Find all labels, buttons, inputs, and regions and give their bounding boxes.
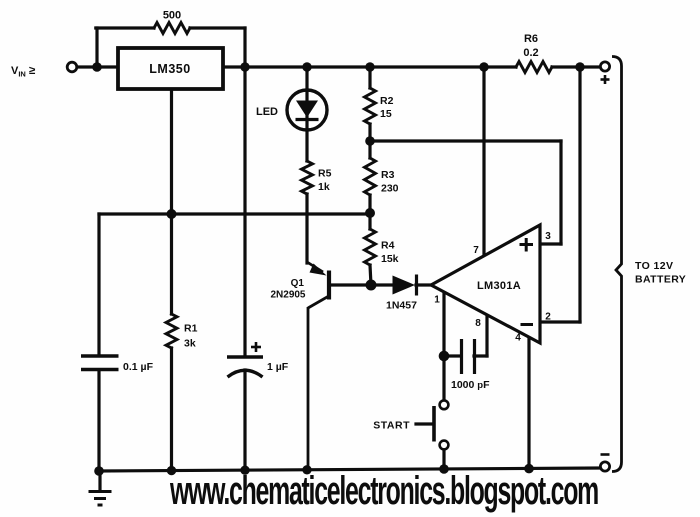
svg-text:1k: 1k bbox=[318, 181, 330, 193]
svg-text:Q1: Q1 bbox=[291, 278, 305, 289]
svg-text:15: 15 bbox=[380, 108, 392, 120]
svg-text:LED: LED bbox=[256, 106, 278, 118]
wire R3 to ADJ rail node bbox=[368, 195, 371, 213]
svg-text:2N2905: 2N2905 bbox=[270, 290, 305, 301]
wire LED cathode to R5 bbox=[305, 130, 308, 161]
node ground switch bbox=[439, 464, 449, 474]
wire R2 to node bbox=[368, 124, 371, 141]
transistor Q1 2N2905 bbox=[307, 262, 329, 470]
wire ground rail bbox=[99, 468, 600, 471]
wire start label stub bbox=[416, 422, 432, 425]
wire through LED circle bbox=[305, 90, 308, 130]
svg-text:0.2: 0.2 bbox=[523, 47, 538, 59]
svg-text:1: 1 bbox=[434, 295, 440, 306]
node pin7 supply tap bbox=[479, 62, 488, 71]
node Q1 base-diode bbox=[366, 280, 377, 291]
svg-text:1000 pF: 1000 pF bbox=[451, 379, 490, 391]
svg-text:TO 12V: TO 12V bbox=[635, 260, 673, 272]
node LED tap bbox=[302, 62, 311, 71]
wire feedback from battery plus to pin 2 bbox=[578, 67, 581, 322]
node ground pin4 bbox=[524, 464, 534, 474]
wire Vin terminal to LM350 input bbox=[77, 65, 119, 68]
svg-text:7: 7 bbox=[473, 245, 479, 256]
node ground C1 bbox=[94, 466, 104, 476]
wire LM350 ADJ pin down bbox=[170, 89, 173, 214]
ground bbox=[89, 492, 112, 506]
resistor 500 bbox=[154, 23, 190, 34]
wire Q1 base to diode anode bbox=[331, 283, 393, 286]
wire Vin node up to 500-ohm bypass bbox=[95, 28, 98, 65]
wire pin3 vertical link bbox=[559, 141, 562, 244]
node R3-R4 ADJ rail bbox=[365, 208, 375, 218]
wire node to R4 bbox=[368, 213, 371, 229]
node ADJ-R1 bbox=[167, 209, 177, 219]
node R2-R3 pin3 bbox=[365, 136, 375, 146]
label plus terminal bbox=[601, 75, 610, 84]
svg-text:1N457: 1N457 bbox=[386, 300, 417, 312]
wire node to R3 bbox=[368, 141, 371, 158]
wire op-amp pin 2 stub bbox=[540, 320, 580, 323]
svg-text:R1: R1 bbox=[184, 323, 198, 335]
terminal Vin bbox=[67, 62, 77, 72]
wire op-amp pin 1 down to start switch bbox=[442, 292, 445, 401]
resistor R6 bbox=[516, 62, 552, 73]
resistor R4 bbox=[365, 229, 376, 265]
wire C2 minus plate to ground rail bbox=[243, 370, 246, 471]
wire start switch to ground rail bbox=[442, 449, 445, 470]
regulator U1 LM350 bbox=[118, 48, 223, 89]
svg-text:15k: 15k bbox=[381, 253, 399, 265]
svg-text:BATTERY: BATTERY bbox=[635, 274, 686, 286]
svg-text:1 µF: 1 µF bbox=[267, 361, 289, 373]
brace to battery bbox=[612, 57, 622, 472]
wire LM350 output rail bbox=[223, 65, 516, 68]
svg-text:R2: R2 bbox=[380, 95, 394, 107]
terminal battery plus bbox=[600, 62, 609, 71]
wire pin 8 to compensation cap bbox=[474, 354, 487, 357]
svg-text:2: 2 bbox=[545, 312, 551, 323]
op-amp minus input symbol bbox=[521, 323, 534, 326]
capacitor C3 1000 pF bbox=[462, 339, 475, 374]
wire ground stub bbox=[98, 471, 101, 489]
svg-text:www.chematicelectronics.blogsp: www.chematicelectronics.blogspot.com bbox=[169, 469, 598, 513]
wire comp cap to pin 1 line bbox=[444, 354, 461, 357]
wire R2-R3 node to pin3 link bbox=[370, 139, 561, 142]
resistor R5 bbox=[302, 161, 313, 194]
node comp cap - pin1 bbox=[439, 351, 450, 362]
node Vin input bbox=[92, 62, 102, 72]
label minus terminal bbox=[601, 453, 610, 456]
svg-text:8: 8 bbox=[475, 318, 481, 329]
wire op-amp pin 7 supply bbox=[482, 67, 485, 256]
wire output rail to LED bbox=[305, 67, 308, 90]
wire diode cathode to op-amp output bbox=[416, 283, 431, 286]
svg-text:4: 4 bbox=[515, 333, 521, 344]
svg-text:230: 230 bbox=[381, 183, 399, 195]
wire R1 to ground rail bbox=[170, 348, 173, 471]
wire bypass top left segment bbox=[96, 26, 154, 29]
op-amp U2 LM301A bbox=[431, 225, 551, 344]
capacitor C2 1 uF bbox=[227, 357, 263, 377]
svg-text:R6: R6 bbox=[524, 33, 538, 45]
wire bypass top right segment bbox=[190, 26, 245, 29]
capacitor C1 0.1 uF bbox=[81, 356, 119, 370]
wire R4 down to base node bbox=[370, 265, 371, 285]
label plus of C2 bbox=[251, 342, 261, 352]
resistor R1 bbox=[166, 314, 177, 348]
svg-text:R5: R5 bbox=[318, 168, 332, 180]
node bypass-output bbox=[240, 62, 249, 71]
svg-text:R3: R3 bbox=[381, 169, 395, 181]
wire ADJ node down to C1 bbox=[97, 214, 100, 354]
diode D2 1N457 bbox=[393, 275, 417, 296]
terminal battery minus bbox=[600, 462, 609, 471]
node R2 top bbox=[365, 62, 374, 71]
node ground Q1 collector bbox=[302, 465, 311, 474]
wire ADJ node down to R1 bbox=[170, 214, 173, 314]
resistor R3 bbox=[365, 158, 376, 195]
wire ADJ rail horizontal bbox=[99, 212, 370, 215]
svg-text:0.1 µF: 0.1 µF bbox=[123, 361, 154, 373]
node feedback tap bbox=[575, 62, 584, 71]
wire C1 to ground rail bbox=[97, 370, 100, 471]
svg-text:LM350: LM350 bbox=[149, 62, 190, 76]
switch START push button bbox=[434, 400, 448, 449]
wire R6 to battery plus terminal bbox=[552, 65, 600, 68]
svg-text:START: START bbox=[373, 420, 410, 432]
svg-text:3k: 3k bbox=[184, 338, 196, 350]
resistor R2 bbox=[365, 88, 376, 124]
svg-text:LM301A: LM301A bbox=[477, 280, 521, 292]
svg-text:R4: R4 bbox=[381, 240, 395, 252]
wire output node down to C2 plus plate bbox=[243, 67, 246, 355]
wire R5 to Q1 emitter bbox=[305, 194, 308, 263]
wire output rail to R2 bbox=[368, 67, 371, 88]
node ground C2 bbox=[240, 466, 249, 475]
svg-text:500: 500 bbox=[163, 10, 181, 22]
op-amp plus input symbol bbox=[520, 238, 534, 252]
wire into op-amp pin 3 bbox=[540, 242, 561, 245]
wire op-amp pin 4 to ground rail bbox=[527, 337, 530, 469]
svg-text:3: 3 bbox=[545, 231, 551, 242]
wire op-amp pin 8 down bbox=[485, 315, 488, 356]
wire bypass down to output node bbox=[243, 28, 246, 65]
node ground R1 bbox=[167, 466, 176, 475]
LED D1 bbox=[287, 90, 327, 130]
